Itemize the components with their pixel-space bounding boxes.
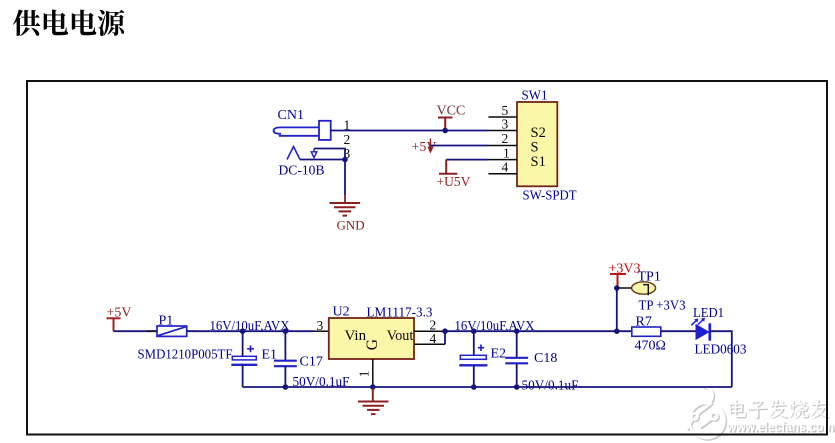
node U2 ground junction [370,384,376,390]
svg-text:470Ω: 470Ω [635,339,666,354]
svg-text:Vout: Vout [387,328,414,344]
SW1 pin 3 stub [489,130,518,132]
svg-text:GND: GND [337,217,365,232]
svg-text:DC-10B: DC-10B [279,164,325,179]
wire CN1 pin3 row [300,159,345,161]
U2 pin 4 stub [414,343,445,345]
power +3V3 symbol [610,274,626,287]
power VCC symbol [438,118,453,130]
fuse P1 pin stubs [147,330,197,332]
svg-text:4: 4 [502,159,509,174]
node bottom rail E2 [471,384,477,390]
node CN1 pin3 junction [342,157,348,163]
svg-text:LED0603: LED0603 [695,342,747,357]
SW1 pin 1 stub [489,159,518,161]
CN1 switch arrow [311,149,317,158]
wire pin4 up to pin2 [444,331,446,344]
svg-text:C17: C17 [300,354,323,369]
svg-text:3: 3 [502,117,509,132]
node VCC junction [442,128,448,134]
svg-text:E2: E2 [491,347,507,362]
power +5V arrow symbol [427,139,433,154]
title 供电电源 [13,10,124,37]
ground GND symbol [330,203,361,216]
wire +U5V to SW1 pin1 [446,159,488,161]
svg-text:G: G [364,339,381,350]
wire junction to TP1 [617,287,632,289]
wire +5V to SW1 pin2 [430,145,488,147]
power +5V bar symbol (bottom left) [107,318,121,331]
wire R7 to LED1 [661,330,696,332]
svg-text:1: 1 [503,145,510,160]
node C17 junction top [283,328,289,334]
node TP1 junction upper [614,285,620,291]
svg-text:P1: P1 [159,314,174,329]
U2 ground pin wire [372,359,374,387]
TP1 pin 1 number (rotated) [643,285,648,296]
capacitor E2 (polarized) [459,331,487,387]
ground symbol under U2 [358,387,389,414]
svg-text:4: 4 [430,331,437,346]
power +U5V symbol [439,160,457,174]
svg-text:www.elecfans.com: www.elecfans.com [726,419,834,434]
svg-text:R7: R7 [636,315,652,330]
wire CN1 pin2 row [314,149,345,160]
svg-text:16V/10uF,AVX: 16V/10uF,AVX [455,319,535,334]
node U2 pin2 junction [442,328,448,334]
svg-text:C18: C18 [534,351,557,366]
capacitor C17 [274,331,297,387]
svg-text:VCC: VCC [437,104,466,119]
wire LED1 to right corner and down [710,331,732,387]
node bottom rail C18 [514,384,520,390]
node bottom rail C17 [283,384,289,390]
svg-text:SMD1210P005TF: SMD1210P005TF [138,348,233,363]
svg-text:+5V: +5V [412,140,437,155]
svg-text:16V/10uF,AVX: 16V/10uF,AVX [210,319,290,334]
svg-text:TP1: TP1 [638,270,661,285]
svg-text:TP +3V3: TP +3V3 [639,299,686,314]
svg-text:+3V3: +3V3 [609,262,641,277]
svg-text:1: 1 [357,371,372,378]
wire U2 pin2 to R7 [445,330,632,332]
switch SW1 body [517,102,557,186]
regulator U2 body [329,318,414,359]
svg-text:SW-SPDT: SW-SPDT [523,189,577,204]
wire CN1 pin1 to SW1 pin3 [330,130,489,132]
node C18 junction top [514,328,520,334]
SW1 pin 5 stub [489,116,518,118]
svg-text:CN1: CN1 [278,108,304,123]
node E1 junction [240,328,246,334]
svg-text:S1: S1 [531,154,546,170]
wire +5V to fuse P1 [114,330,158,332]
testpoint TP1 pad [632,282,656,294]
node E2 junction [471,328,477,334]
wire bottom rail [243,386,732,388]
svg-text:2: 2 [344,132,351,147]
connector CN1 barrel jack body [274,121,331,140]
wire P1 to U2 pin3 [187,330,314,332]
svg-text:LED1: LED1 [693,306,724,321]
SW1 pin 4 stub [489,173,518,175]
U2 pin 2 stub [414,330,445,332]
svg-text:+5V: +5V [107,306,132,321]
svg-text:+U5V: +U5V [437,174,471,189]
schematic frame [27,81,827,435]
capacitor E1 (polarized) [231,331,257,387]
svg-text:2: 2 [502,131,509,146]
svg-text:50V/0.1uF: 50V/0.1uF [522,378,579,393]
CN1 sleeve zigzag contact [287,147,300,160]
U2 pin 3 stub [314,330,329,332]
resistor R7 body [632,327,661,336]
wire TP1 down to rail [616,288,618,331]
capacitor C18 [505,331,528,387]
SW1 pin 2 stub [489,145,518,147]
svg-text:3: 3 [317,318,324,333]
watermark logo [689,388,726,440]
wire CN1 to GND [344,160,346,196]
fuse P1 body [157,326,187,336]
watermark text 电子发烧友 and url www.elecfans.com [728,400,835,435]
LED LED1 symbol [691,318,710,341]
node R7 junction [614,328,620,334]
